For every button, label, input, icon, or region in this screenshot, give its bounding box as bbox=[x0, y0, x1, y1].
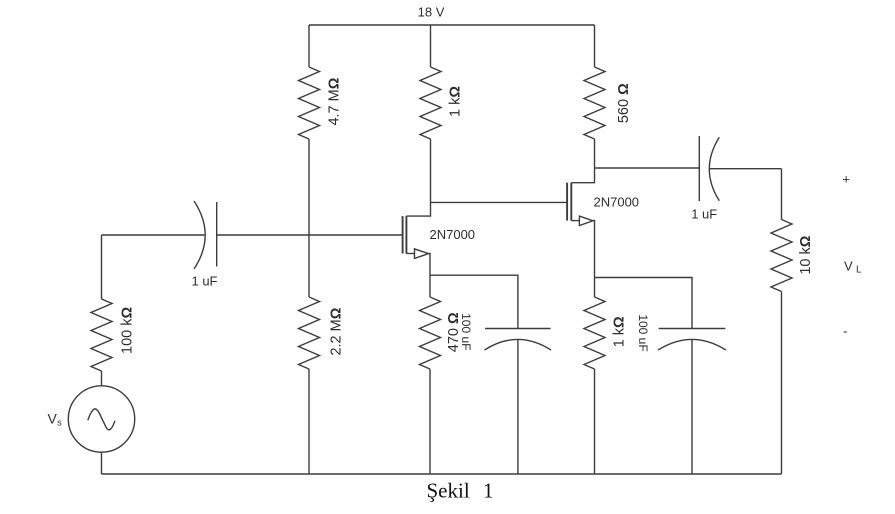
svg-text:2N7000: 2N7000 bbox=[594, 194, 640, 209]
svg-text:100 kΩ: 100 kΩ bbox=[120, 306, 136, 353]
svg-text:560 Ω: 560 Ω bbox=[616, 83, 632, 123]
svg-text:Şekil: Şekil bbox=[427, 479, 470, 503]
svg-text:18 V: 18 V bbox=[418, 5, 445, 20]
svg-text:1 uF: 1 uF bbox=[691, 207, 717, 222]
svg-text:1 uF: 1 uF bbox=[191, 274, 217, 289]
svg-text:V: V bbox=[844, 258, 853, 273]
svg-text:2N7000: 2N7000 bbox=[430, 227, 476, 242]
svg-text:-: - bbox=[843, 324, 847, 339]
svg-text:100 uF: 100 uF bbox=[636, 314, 650, 351]
svg-text:100 uF: 100 uF bbox=[459, 313, 473, 350]
svg-text:+: + bbox=[842, 171, 850, 186]
svg-text:1 kΩ: 1 kΩ bbox=[612, 316, 628, 347]
svg-text:s: s bbox=[57, 418, 62, 428]
svg-text:1 kΩ: 1 kΩ bbox=[447, 86, 463, 117]
svg-text:10 kΩ: 10 kΩ bbox=[798, 235, 814, 274]
svg-text:V: V bbox=[48, 411, 58, 427]
svg-text:L: L bbox=[856, 265, 862, 276]
svg-text:2.2 MΩ: 2.2 MΩ bbox=[328, 307, 344, 355]
svg-text:1: 1 bbox=[483, 479, 494, 503]
svg-text:4.7 MΩ: 4.7 MΩ bbox=[326, 77, 342, 125]
